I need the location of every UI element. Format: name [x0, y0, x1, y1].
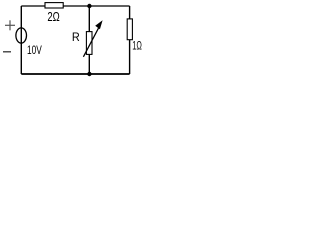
- svg-text:2Ω: 2Ω: [47, 9, 60, 24]
- wire: top horizontal: [21, 5, 129, 7]
- svg-text:R: R: [72, 30, 80, 44]
- minus sign: [3, 51, 11, 53]
- wire: bottom horizontal: [21, 73, 129, 75]
- resistor R1 2ohm box: [45, 3, 63, 8]
- arrow of variable resistor R: [83, 20, 102, 57]
- svg-text:1Ω: 1Ω: [132, 38, 142, 52]
- junction node bottom: [87, 72, 91, 76]
- wire: left vertical (through source): [20, 6, 22, 74]
- junction node top: [87, 4, 91, 8]
- voltage source V1 circle: [16, 28, 27, 43]
- wire: right vertical: [129, 6, 131, 74]
- resistor R2 1ohm box: [127, 19, 132, 40]
- plus sign: [5, 20, 15, 30]
- resistor R variable box: [86, 32, 92, 55]
- wire: middle vertical: [88, 6, 90, 74]
- svg-text:10V: 10V: [27, 43, 42, 57]
